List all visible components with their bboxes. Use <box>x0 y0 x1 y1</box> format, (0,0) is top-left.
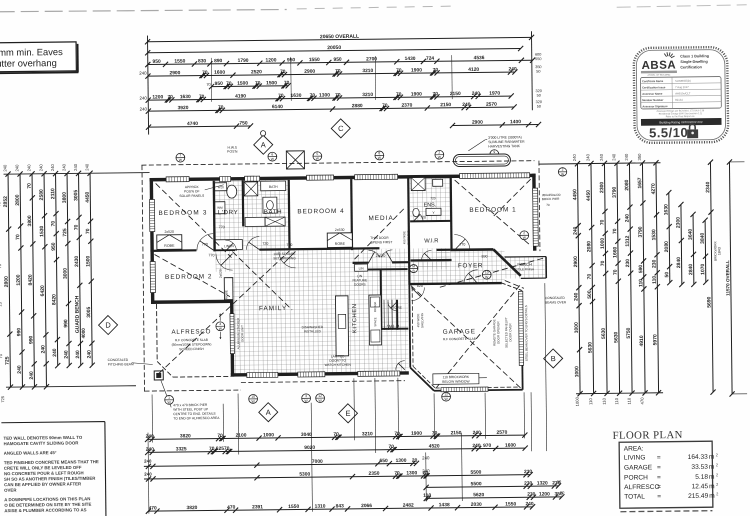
svg-text:5630: 5630 <box>613 331 619 342</box>
tiled floor: foyer <box>411 262 505 285</box>
rainwater tank <box>453 154 510 167</box>
svg-text:20650 OVERALL: 20650 OVERALL <box>320 34 359 40</box>
section marker C <box>331 119 350 138</box>
svg-text:770: 770 <box>459 242 465 246</box>
svg-text:770: 770 <box>208 253 214 257</box>
svg-text:=: = <box>657 493 661 500</box>
svg-text:720: 720 <box>430 196 436 200</box>
svg-text:2300: 2300 <box>676 217 682 228</box>
svg-text:GARAGE: GARAGE <box>624 464 653 471</box>
svg-text:2840: 2840 <box>676 257 682 268</box>
svg-text:4450: 4450 <box>572 189 578 200</box>
svg-text:240: 240 <box>611 153 616 161</box>
svg-text:240: 240 <box>573 292 579 301</box>
svg-text:50: 50 <box>537 94 541 98</box>
svg-text:2x520: 2x520 <box>164 230 174 234</box>
svg-text:DOOR UNIT: DOOR UNIT <box>240 325 244 342</box>
window symbol bedroom1 <box>520 231 529 240</box>
svg-text:2391: 2391 <box>252 504 263 510</box>
svg-text:Certification: Certification <box>680 65 702 69</box>
svg-text:770: 770 <box>202 242 208 246</box>
svg-text:50: 50 <box>664 272 670 278</box>
svg-text:3790: 3790 <box>612 186 618 197</box>
svg-text:11570 OVERALL: 11570 OVERALL <box>725 260 730 296</box>
svg-text:50: 50 <box>560 491 564 495</box>
svg-text:10: 10 <box>251 395 255 399</box>
svg-text:2370: 2370 <box>401 103 412 109</box>
svg-text:50: 50 <box>536 70 540 74</box>
svg-text:5970: 5970 <box>652 334 658 345</box>
svg-text:ROBE: ROBE <box>335 242 346 246</box>
svg-text:=: = <box>657 454 661 461</box>
svg-text:70: 70 <box>546 203 550 207</box>
svg-text:240: 240 <box>508 66 517 72</box>
svg-text:W.I.P: W.I.P <box>387 324 400 330</box>
window bed4 top <box>307 175 334 180</box>
svg-text:970: 970 <box>483 443 492 449</box>
svg-text:BATH: BATH <box>269 185 278 189</box>
svg-text:1530: 1530 <box>39 225 45 236</box>
svg-text:SET OPENING: SET OPENING <box>273 256 296 260</box>
svg-text:70: 70 <box>15 234 21 240</box>
windows family south <box>247 372 278 377</box>
wir south wall <box>411 259 452 262</box>
svg-text:990: 990 <box>16 328 22 337</box>
roof line bedroom1 <box>455 179 532 247</box>
svg-text:1970: 1970 <box>489 91 500 97</box>
svg-text:2: 2 <box>716 463 718 467</box>
family south wall <box>231 371 409 376</box>
svg-text:4120: 4120 <box>468 67 479 73</box>
svg-text:240: 240 <box>572 154 577 162</box>
svg-text:2580: 2580 <box>39 189 45 200</box>
svg-text:550: 550 <box>535 57 541 61</box>
svg-text:ABSA: ABSA <box>641 60 676 72</box>
svg-text:3790: 3790 <box>638 226 644 237</box>
ens fixtures <box>411 177 425 190</box>
garage slab dashes <box>411 287 414 367</box>
svg-text:1000: 1000 <box>574 322 580 333</box>
svg-text:2900: 2900 <box>472 120 483 126</box>
svg-text:SPACE: SPACE <box>373 317 377 326</box>
svg-text:20: 20 <box>412 458 418 464</box>
svg-text:240: 240 <box>17 365 23 374</box>
svg-text:3040: 3040 <box>301 432 312 438</box>
svg-text:1900: 1900 <box>411 67 422 73</box>
svg-text:240: 240 <box>144 459 152 464</box>
svg-text:70: 70 <box>612 228 618 234</box>
bottom dimension block <box>151 395 154 443</box>
svg-text:110: 110 <box>423 493 431 499</box>
svg-text:240: 240 <box>472 443 481 449</box>
svg-text:70: 70 <box>587 274 593 280</box>
svg-text:500: 500 <box>587 290 593 299</box>
svg-text:3800: 3800 <box>27 215 33 226</box>
svg-text:12.45: 12.45 <box>692 483 709 490</box>
svg-text:ROBE: ROBE <box>164 244 175 248</box>
svg-text:7: 7 <box>179 153 181 157</box>
window ldry top <box>220 176 231 181</box>
svg-text:70: 70 <box>396 68 402 74</box>
svg-text:240: 240 <box>144 472 152 477</box>
svg-text:240: 240 <box>84 163 89 171</box>
svg-text:70: 70 <box>0 263 2 268</box>
section marker A top <box>254 135 273 154</box>
kitchen wall bench <box>369 295 382 345</box>
svg-text:AREA:: AREA: <box>624 445 644 452</box>
solar panel cross box <box>286 151 304 169</box>
svg-text:70: 70 <box>335 68 341 74</box>
svg-text:2350: 2350 <box>368 471 379 477</box>
svg-text:240: 240 <box>422 455 430 460</box>
svg-text:2080: 2080 <box>664 241 670 252</box>
svg-text:110: 110 <box>638 279 644 287</box>
svg-text:3210: 3210 <box>362 92 373 98</box>
svg-text:BEDROOM 3: BEDROOM 3 <box>158 209 207 217</box>
svg-text:1312: 1312 <box>625 235 631 246</box>
svg-text:12: 12 <box>318 394 322 398</box>
svg-text:2080: 2080 <box>586 241 592 252</box>
svg-text:3800: 3800 <box>62 192 68 203</box>
svg-text:470: 470 <box>227 505 236 511</box>
svg-text:230: 230 <box>652 259 658 268</box>
svg-text:mm min. Eaves: mm min. Eaves <box>0 46 63 58</box>
svg-text:215.49: 215.49 <box>688 493 709 500</box>
svg-text:240: 240 <box>40 345 46 354</box>
svg-text:70: 70 <box>284 80 290 86</box>
svg-text:5690: 5690 <box>706 296 712 307</box>
svg-text:230: 230 <box>524 481 533 487</box>
svg-text:BEDROOM 4: BEDROOM 4 <box>297 208 344 216</box>
window symbol alfresco <box>216 322 225 331</box>
svg-text:2: 2 <box>716 492 718 496</box>
svg-text:2900: 2900 <box>304 69 315 75</box>
svg-text:5: 5 <box>316 152 318 156</box>
svg-text:1600: 1600 <box>214 70 225 76</box>
svg-text:950: 950 <box>333 57 342 63</box>
svg-text:3210: 3210 <box>362 68 373 74</box>
svg-text:1200: 1200 <box>265 58 276 64</box>
svg-text:STEEL BEAM OVER TO ENG'S DETAI: STEEL BEAM OVER TO ENG'S DETAILS <box>524 305 529 361</box>
svg-text:2: 2 <box>523 231 525 235</box>
svg-text:1500: 1500 <box>85 255 91 266</box>
svg-text:2900: 2900 <box>169 70 180 76</box>
svg-text:MEDIA: MEDIA <box>368 215 393 222</box>
svg-text:590: 590 <box>638 265 644 274</box>
svg-text:1900: 1900 <box>411 91 422 97</box>
svg-text:m: m <box>709 464 715 471</box>
svg-text:890: 890 <box>214 58 223 64</box>
svg-text:BEAMS OVER: BEAMS OVER <box>545 300 567 304</box>
door bedroom2 <box>216 254 233 271</box>
svg-text:LIVING: LIVING <box>624 454 646 461</box>
door kitchen south <box>396 361 405 370</box>
svg-text:utter overhang: utter overhang <box>0 57 57 69</box>
door wip <box>388 302 397 311</box>
top dimension block <box>148 37 532 41</box>
robe bedroom3 <box>157 235 182 250</box>
svg-text:=: = <box>657 484 661 491</box>
left dimension block <box>4 173 150 175</box>
svg-text:990: 990 <box>28 335 34 344</box>
svg-text:70: 70 <box>613 269 619 275</box>
svg-text:4: 4 <box>219 322 221 326</box>
window media top <box>355 174 398 179</box>
bedroom2 bottom wall <box>151 300 233 304</box>
svg-text:2900: 2900 <box>573 256 579 267</box>
tiled floor: hall + family + kitchen <box>215 248 450 374</box>
svg-text:350: 350 <box>637 153 642 161</box>
svg-text:3325: 3325 <box>176 446 187 452</box>
svg-text:3840: 3840 <box>700 232 706 243</box>
svg-text:5630: 5630 <box>587 342 593 353</box>
svg-text:70: 70 <box>85 228 91 234</box>
svg-text:1: 1 <box>168 396 170 400</box>
svg-text:2150: 2150 <box>451 430 462 436</box>
top exterior wall <box>150 174 536 182</box>
svg-text:1200: 1200 <box>539 491 550 497</box>
svg-text:5300: 5300 <box>299 472 310 478</box>
eaves dashed outline <box>141 161 534 165</box>
porch outline <box>505 256 546 258</box>
svg-text:70: 70 <box>255 80 261 86</box>
stacker door alfresco <box>230 314 234 354</box>
svg-text:3920: 3920 <box>178 105 189 111</box>
wall bedroom4/media <box>350 179 353 250</box>
wall ens+wir/bedroom1 <box>450 178 453 249</box>
svg-text:8420: 8420 <box>51 294 57 305</box>
svg-text:2x620: 2x620 <box>376 254 386 258</box>
svg-text:2x530: 2x530 <box>335 228 345 232</box>
svg-text:2840: 2840 <box>688 264 694 275</box>
svg-text:240: 240 <box>29 371 35 380</box>
panelift door strip <box>518 291 523 365</box>
svg-text:PORCH: PORCH <box>624 474 648 481</box>
wall media/ens+wir <box>407 179 410 262</box>
svg-text:m: m <box>709 454 715 461</box>
svg-text:70: 70 <box>600 219 606 225</box>
svg-text:L'DRY: L'DRY <box>218 209 239 216</box>
svg-text:1600: 1600 <box>505 443 516 449</box>
svg-text:SHELVING: SHELVING <box>406 230 410 245</box>
svg-text:GARAGE: GARAGE <box>443 328 476 335</box>
svg-text:1550: 1550 <box>174 59 185 65</box>
door bedroom1 <box>454 234 470 250</box>
svg-text:1000: 1000 <box>263 432 274 438</box>
svg-text:Single-Dwelling: Single-Dwelling <box>680 60 707 64</box>
svg-text:5620: 5620 <box>473 492 484 498</box>
section marker A bottom <box>259 403 278 422</box>
svg-text:1630: 1630 <box>663 204 669 215</box>
svg-text:POS'N: POS'N <box>227 150 238 154</box>
svg-text:1200: 1200 <box>16 274 22 285</box>
svg-text:50: 50 <box>537 105 541 109</box>
svg-text:890: 890 <box>481 255 487 259</box>
svg-text:240: 240 <box>573 226 579 235</box>
svg-text:FOYER: FOYER <box>458 262 483 269</box>
svg-text:240: 240 <box>2 164 7 172</box>
svg-text:240: 240 <box>61 163 66 171</box>
svg-text:830: 830 <box>198 58 207 64</box>
door ens <box>413 211 423 221</box>
svg-text:70: 70 <box>27 183 33 189</box>
svg-text:240: 240 <box>625 214 631 223</box>
window bath top <box>245 176 260 181</box>
svg-text:4190: 4190 <box>235 93 246 99</box>
svg-text:Q'TILE FINISH: Q'TILE FINISH <box>515 267 534 271</box>
door bedroom3 <box>197 234 214 251</box>
svg-text:230: 230 <box>625 259 631 268</box>
svg-text:240: 240 <box>38 164 43 172</box>
svg-text:m: m <box>709 474 715 481</box>
svg-text:1843: 1843 <box>717 247 721 255</box>
svg-text:50: 50 <box>557 480 561 484</box>
svg-text:70: 70 <box>389 444 395 450</box>
vanity <box>245 217 265 226</box>
section marker D <box>98 315 117 334</box>
svg-text:82134: 82134 <box>675 98 683 102</box>
svg-text:9: 9 <box>493 150 495 154</box>
svg-text:950: 950 <box>51 242 57 251</box>
svg-text:C: C <box>338 124 344 133</box>
svg-text:2340: 2340 <box>705 181 711 192</box>
svg-text:DOOR OPENER: DOOR OPENER <box>496 321 500 344</box>
alfresco dashed slab <box>156 304 159 361</box>
svg-text:OPENS FIRST: OPENS FIRST <box>370 240 392 244</box>
svg-text:70: 70 <box>74 224 80 230</box>
svg-text:600: 600 <box>535 53 541 57</box>
garage outline <box>409 283 501 284</box>
bedroom strip south wall <box>150 249 196 252</box>
svg-text:1320: 1320 <box>537 480 548 486</box>
ABSA certification stamp <box>634 47 729 143</box>
svg-text:5500: 5500 <box>470 470 481 476</box>
left exterior wall <box>150 178 155 304</box>
svg-text:1790: 1790 <box>238 58 249 64</box>
svg-text:70: 70 <box>218 105 224 111</box>
roof line media <box>354 207 407 260</box>
svg-text:5.5/10: 5.5/10 <box>649 125 688 140</box>
svg-text:1900: 1900 <box>411 431 422 437</box>
svg-text:70: 70 <box>280 69 286 75</box>
tiled floor: laundry/bath strip <box>215 180 291 251</box>
svg-text:CAN BE APPLIED BY OWNER AFTER: CAN BE APPLIED BY OWNER AFTER <box>4 481 82 487</box>
svg-text:4536: 4536 <box>474 55 485 61</box>
svg-text:6: 6 <box>271 152 273 156</box>
svg-text:240: 240 <box>624 153 629 161</box>
svg-text:STORE: STORE <box>390 306 402 310</box>
svg-text:DOOR OVER: DOOR OVER <box>508 322 512 341</box>
svg-text:AH910x/CLT: AH910x/CLT <box>675 91 691 95</box>
svg-text:2x520: 2x520 <box>219 269 223 278</box>
media south wall <box>353 262 369 264</box>
svg-text:M: M <box>412 264 415 268</box>
pantry shelves <box>383 300 385 330</box>
svg-text:1660: 1660 <box>612 246 618 257</box>
hall/foyer north wall piece <box>436 249 450 251</box>
svg-text:2852: 2852 <box>3 196 9 207</box>
ens/wir divider <box>410 220 451 222</box>
svg-text:m: m <box>709 493 715 500</box>
svg-text:6420: 6420 <box>40 285 46 296</box>
bedroom1 south wall + angle to porch <box>450 248 493 251</box>
svg-text:950: 950 <box>152 59 161 65</box>
svg-text:2570: 2570 <box>486 102 497 108</box>
svg-text:110: 110 <box>588 398 593 405</box>
svg-text:240: 240 <box>146 447 155 453</box>
svg-text:4450: 4450 <box>586 190 592 201</box>
svg-text:=: = <box>657 474 661 481</box>
svg-text:B: B <box>551 354 556 363</box>
svg-text:E: E <box>345 409 350 418</box>
svg-text:1630: 1630 <box>291 93 302 99</box>
garage south window <box>441 387 488 392</box>
svg-text:320: 320 <box>535 89 541 93</box>
svg-text:240: 240 <box>73 163 78 171</box>
svg-text:240: 240 <box>87 350 93 359</box>
svg-text:ANGLED WALLS ARE 45°: ANGLED WALLS ARE 45° <box>4 450 57 456</box>
svg-text:320: 320 <box>536 100 542 104</box>
svg-text:3640: 3640 <box>688 229 694 240</box>
svg-text:240: 240 <box>472 91 481 97</box>
svg-text:2150: 2150 <box>440 102 451 108</box>
door ldry <box>225 240 236 251</box>
svg-text:2300: 2300 <box>599 182 605 193</box>
foyer/garage wall <box>408 262 410 285</box>
svg-text:70: 70 <box>310 93 316 99</box>
svg-text:70: 70 <box>224 446 230 452</box>
svg-text:Residential Energy 6000 Star (: Residential Energy 6000 Star (version 1.… <box>659 112 703 115</box>
roof line alfresco-family <box>157 251 290 373</box>
svg-text:240: 240 <box>585 153 590 161</box>
svg-text:2570: 2570 <box>496 430 507 436</box>
svg-text:3000: 3000 <box>63 268 69 279</box>
svg-text:m: m <box>709 483 715 490</box>
svg-text:4270: 4270 <box>651 183 657 194</box>
svg-text:2: 2 <box>716 453 718 457</box>
svg-text:1550: 1550 <box>309 57 320 63</box>
svg-text:110: 110 <box>652 276 658 284</box>
svg-text:70: 70 <box>209 446 215 452</box>
svg-text:1000: 1000 <box>600 238 606 249</box>
door bath <box>246 237 259 250</box>
svg-text:LIN: LIN <box>359 266 365 270</box>
svg-text:2520: 2520 <box>251 69 262 75</box>
svg-text:ALFRESCO: ALFRESCO <box>171 328 211 335</box>
svg-text:70: 70 <box>433 91 439 97</box>
window bed2 left <box>150 261 155 292</box>
svg-text:70: 70 <box>0 201 1 206</box>
svg-text:650: 650 <box>380 458 389 464</box>
svg-text:2482: 2482 <box>403 503 414 509</box>
svg-text:Assessor Name: Assessor Name <box>642 92 663 96</box>
svg-text:2: 2 <box>716 473 718 477</box>
svg-text:PORCH: PORCH <box>517 262 532 267</box>
svg-text:5750: 5750 <box>626 327 632 338</box>
svg-text:W20: W20 <box>218 185 225 189</box>
door wir <box>421 250 431 260</box>
svg-text:470: 470 <box>149 505 158 511</box>
svg-text:4910: 4910 <box>639 335 645 346</box>
svg-text:70: 70 <box>278 93 284 99</box>
svg-text:724: 724 <box>426 56 435 62</box>
svg-text:SOLAR PANELS: SOLAR PANELS <box>179 194 205 198</box>
svg-text:950: 950 <box>287 57 296 63</box>
svg-text:4740: 4740 <box>187 121 198 127</box>
tiled floor: ens <box>410 175 452 221</box>
window bed3 left <box>149 199 154 231</box>
svg-text:ASISE & PLUMBER ACCORDING TO A: ASISE & PLUMBER ACCORDING TO AS <box>4 507 86 513</box>
